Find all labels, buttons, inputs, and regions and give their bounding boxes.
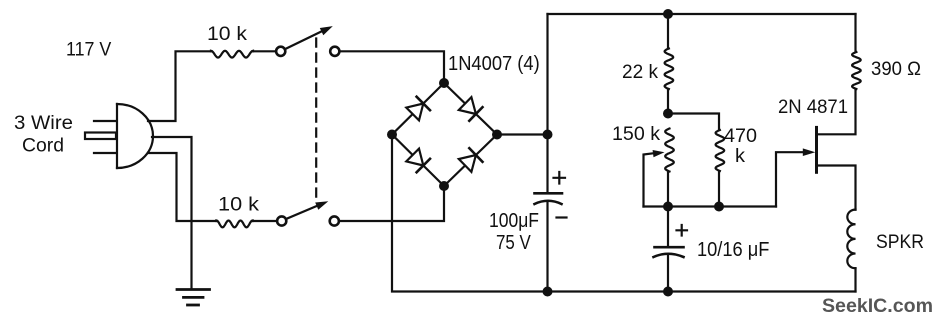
svg-text:SPKR: SPKR bbox=[876, 231, 924, 253]
svg-text:150 k: 150 k bbox=[612, 123, 660, 145]
svg-text:10 k: 10 k bbox=[207, 23, 247, 45]
svg-text:390 Ω: 390 Ω bbox=[871, 58, 921, 80]
svg-text:10 k: 10 k bbox=[218, 194, 259, 216]
svg-text:3 Wire: 3 Wire bbox=[14, 112, 73, 134]
svg-text:2N 4871: 2N 4871 bbox=[778, 96, 848, 118]
svg-text:117 V: 117 V bbox=[66, 39, 111, 61]
svg-text:SeekIC.com: SeekIC.com bbox=[822, 295, 933, 317]
svg-text:1N4007 (4): 1N4007 (4) bbox=[448, 53, 540, 75]
svg-text:Cord: Cord bbox=[22, 135, 64, 157]
svg-text:470: 470 bbox=[724, 125, 757, 147]
svg-text:75 V: 75 V bbox=[496, 232, 531, 254]
svg-text:10/16 μF: 10/16 μF bbox=[697, 239, 769, 261]
svg-text:k: k bbox=[735, 145, 745, 167]
svg-text:22 k: 22 k bbox=[622, 61, 658, 83]
svg-text:100μF: 100μF bbox=[489, 210, 539, 232]
